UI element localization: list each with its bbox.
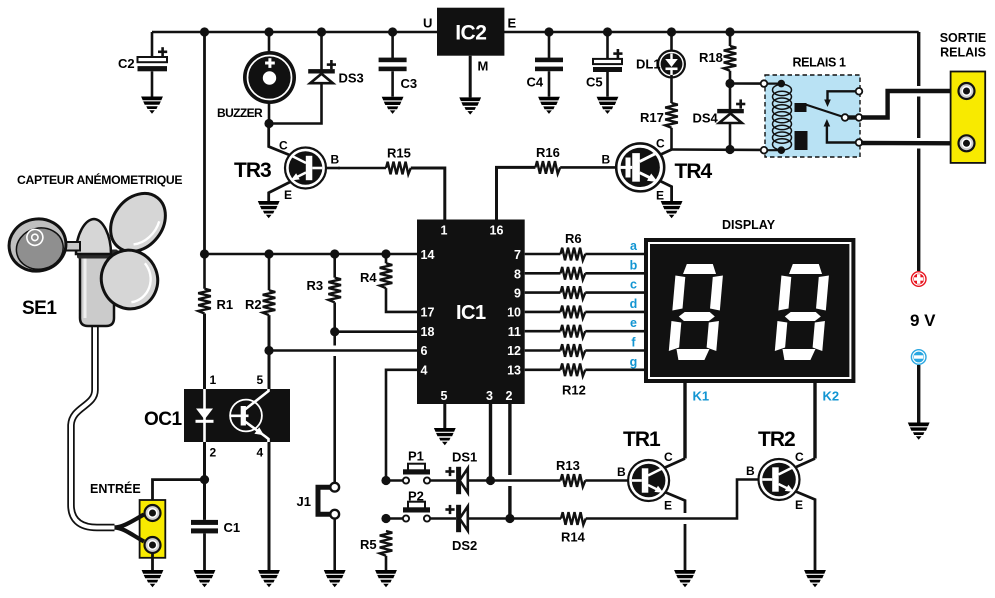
wire J1 vertical with hop <box>333 332 336 346</box>
op-amp microcontroller IC1 <box>417 220 525 405</box>
node P2 junction <box>381 514 390 523</box>
node P1 junction <box>381 476 390 485</box>
svg-text:d: d <box>630 297 638 311</box>
svg-text:E: E <box>508 16 517 31</box>
resistor R6 <box>561 248 586 261</box>
wire R18 junction to relay coil top <box>730 82 764 85</box>
svg-text:9: 9 <box>514 287 521 301</box>
buzzer BZ <box>217 32 296 124</box>
svg-text:C: C <box>795 450 804 464</box>
svg-text:K1: K1 <box>693 389 710 404</box>
relay NO contact <box>827 125 859 143</box>
wire IC1 pin3 down <box>489 404 492 481</box>
battery 9V positive terminal <box>910 271 936 330</box>
wire K2 <box>813 383 816 459</box>
wire OC1 pin4 to ground <box>268 442 271 570</box>
svg-text:E: E <box>795 498 803 512</box>
svg-text:BUZZER: BUZZER <box>217 106 263 120</box>
resistor R8 <box>561 286 586 299</box>
ground below TR4 <box>661 201 683 218</box>
diode DS3 <box>308 32 364 86</box>
svg-text:14: 14 <box>421 248 435 262</box>
relay NC contact <box>828 91 860 101</box>
sensor cable <box>71 324 115 528</box>
node segment letters a-g <box>630 239 638 369</box>
ground below IC1 pin5 <box>434 428 456 445</box>
svg-text:C3: C3 <box>401 76 418 91</box>
wire pin4 stub and vertical <box>386 370 417 481</box>
relay terminals <box>761 80 768 87</box>
capacitor C2 <box>118 32 167 97</box>
ground below IC2 M pin <box>459 97 481 114</box>
sensor cup top-right <box>99 183 176 263</box>
svg-text:a: a <box>630 239 638 253</box>
transistor TR1 <box>617 428 685 570</box>
svg-text:12: 12 <box>507 344 521 358</box>
wire K1 <box>683 383 686 459</box>
wire pin18 row <box>335 330 417 333</box>
ground below C2 <box>141 97 163 114</box>
resistor R16 <box>497 145 618 220</box>
seven-segment digit 1 <box>668 264 724 360</box>
wire 9V feed vertical with hops <box>917 32 920 271</box>
svg-text:TR3: TR3 <box>234 159 271 182</box>
resistor R18 <box>699 32 736 84</box>
button P2 <box>386 489 456 522</box>
svg-text:TR2: TR2 <box>758 428 795 451</box>
svg-text:U: U <box>423 16 432 31</box>
connector block ENTREE <box>90 481 165 558</box>
transistor TR2 <box>746 428 815 570</box>
svg-text:CAPTEUR ANÉMOMETRIQUE: CAPTEUR ANÉMOMETRIQUE <box>17 172 182 187</box>
svg-text:DS1: DS1 <box>452 450 477 465</box>
wire pin14 row <box>205 253 418 256</box>
svg-text:TR1: TR1 <box>623 428 661 451</box>
node buzzer bottom junction <box>264 119 273 128</box>
anemometer sensor SE1 <box>4 172 182 542</box>
svg-text:J1: J1 <box>297 494 311 509</box>
svg-text:K2: K2 <box>823 389 840 404</box>
svg-text:3: 3 <box>486 389 493 403</box>
wire buzzer junction to DS3 <box>269 83 322 123</box>
sensor arm <box>60 242 80 251</box>
svg-text:1: 1 <box>210 373 217 387</box>
sensor body <box>80 252 114 326</box>
svg-text:b: b <box>630 258 638 272</box>
svg-text:DS3: DS3 <box>339 71 364 86</box>
svg-text:4: 4 <box>257 446 264 460</box>
resistor R4 <box>360 254 417 312</box>
diode DS1 <box>445 450 477 495</box>
svg-text:IC2: IC2 <box>455 22 486 45</box>
svg-text:R3: R3 <box>307 278 324 293</box>
svg-text:RELAIS 1: RELAIS 1 <box>793 56 847 70</box>
resistor R10 <box>561 325 586 338</box>
sensor cup bottom-right <box>93 242 166 317</box>
wire DS1 to R13 <box>469 479 561 482</box>
svg-text:C: C <box>664 450 673 464</box>
svg-text:C: C <box>279 139 288 153</box>
node DS1 row pin3 junction <box>486 476 495 485</box>
svg-text:9 V: 9 V <box>910 311 936 330</box>
svg-text:1: 1 <box>441 224 448 238</box>
node OC1 pin2 junction <box>200 475 209 484</box>
svg-text:C2: C2 <box>118 56 135 71</box>
ground below J1 <box>324 570 346 587</box>
display module DISPLAY <box>644 218 855 383</box>
resistor R15 <box>338 146 445 220</box>
svg-text:DS4: DS4 <box>693 111 719 126</box>
svg-text:DISPLAY: DISPLAY <box>722 218 776 232</box>
relay armature <box>804 104 845 118</box>
capacitor C1 <box>191 520 240 570</box>
connector block SORTIE RELAIS <box>940 31 987 163</box>
relay core bars <box>795 103 807 112</box>
ground below C3 <box>382 97 404 114</box>
svg-text:6: 6 <box>421 344 428 358</box>
resistor R1 <box>198 254 233 389</box>
svg-text:8: 8 <box>514 268 521 282</box>
wire junction to ENTREE <box>153 480 205 505</box>
resistor R13 <box>556 458 629 487</box>
svg-text:10: 10 <box>507 306 521 320</box>
svg-text:R12: R12 <box>562 383 586 398</box>
svg-text:g: g <box>630 355 638 369</box>
battery 9V negative terminal <box>911 349 927 423</box>
resistor R3 <box>307 254 342 332</box>
capacitor C3 <box>379 32 418 97</box>
svg-text:2: 2 <box>210 446 217 460</box>
wire OC1 pin2 down <box>203 442 206 520</box>
transistor TR4 <box>602 137 713 203</box>
svg-text:16: 16 <box>490 224 504 238</box>
wire relay NO to SORTIE bottom <box>861 141 958 146</box>
resistor R14 <box>561 480 759 545</box>
wire J1 to ground <box>333 519 336 570</box>
svg-text:5: 5 <box>441 389 448 403</box>
seven-segment digit 2 <box>774 264 830 360</box>
op-amp regulator IC2 <box>423 8 517 98</box>
svg-text:C: C <box>656 137 665 151</box>
capacitor C5 <box>586 32 623 97</box>
svg-text:B: B <box>746 464 755 478</box>
ground below battery <box>908 423 930 440</box>
ground below C1 <box>194 570 216 587</box>
relay RELAIS 1 <box>761 56 863 158</box>
wire TR4 collector row to relay coil <box>672 148 764 151</box>
jumper J1 <box>297 483 340 519</box>
diode DS2 <box>445 505 477 553</box>
ground below C4 <box>538 97 560 114</box>
svg-text:SORTIE: SORTIE <box>940 31 987 45</box>
node DS2 row pin2 junction <box>505 514 514 523</box>
resistor R12 <box>561 364 586 377</box>
svg-text:11: 11 <box>508 325 521 339</box>
node pin6 junction <box>264 346 273 355</box>
svg-text:DL1: DL1 <box>636 57 661 72</box>
svg-text:e: e <box>630 316 637 330</box>
svg-text:C1: C1 <box>224 520 241 535</box>
sensor center cone <box>76 219 111 254</box>
LED DL1 <box>636 32 685 77</box>
sensor split wires <box>115 515 145 528</box>
svg-text:R2: R2 <box>245 297 262 312</box>
svg-text:P2: P2 <box>408 489 424 504</box>
resistor R17 <box>640 75 678 150</box>
optocoupler OC1 <box>144 373 290 460</box>
svg-text:ENTRÉE: ENTRÉE <box>90 481 141 496</box>
sensor collar <box>77 250 118 259</box>
ground below TR3 <box>258 201 280 218</box>
wire ENTREE to ground <box>151 553 154 570</box>
svg-text:B: B <box>617 465 626 479</box>
resistor R7 <box>561 267 586 280</box>
wire DS2 to R14 <box>469 517 561 520</box>
svg-text:DS2: DS2 <box>452 538 477 553</box>
svg-text:P1: P1 <box>408 449 424 464</box>
resistor R9 <box>561 306 586 319</box>
svg-text:IC1: IC1 <box>456 302 486 324</box>
svg-text:E: E <box>664 499 672 513</box>
svg-text:B: B <box>602 153 611 167</box>
svg-text:C4: C4 <box>527 75 544 90</box>
ground below R5 <box>375 570 397 587</box>
resistor R11 <box>561 344 586 357</box>
node R18/DS4/coil junction <box>725 79 734 88</box>
svg-text:R4: R4 <box>360 270 377 285</box>
node junction dots on top rail <box>200 27 735 36</box>
svg-text:R1: R1 <box>217 297 234 312</box>
ground below OC1 pin4 <box>258 570 280 587</box>
capacitor C4 <box>527 32 564 97</box>
wire pin6 row <box>269 349 417 352</box>
svg-text:R5: R5 <box>360 537 377 552</box>
ground below C5 <box>597 97 619 114</box>
svg-text:R18: R18 <box>699 50 723 65</box>
svg-text:E: E <box>284 188 292 202</box>
svg-text:c: c <box>630 278 637 292</box>
diode DS4 <box>693 84 746 150</box>
sensor cup left <box>4 214 71 277</box>
relay coil L <box>765 82 781 84</box>
svg-text:C5: C5 <box>586 75 603 90</box>
svg-text:2: 2 <box>506 389 513 403</box>
wire IC1 pin2 down with hop <box>508 404 511 475</box>
svg-text:4: 4 <box>421 364 428 378</box>
svg-text:TR4: TR4 <box>675 160 713 183</box>
svg-text:5: 5 <box>257 373 264 387</box>
node pin18 junction <box>330 327 339 336</box>
svg-text:7: 7 <box>514 248 521 262</box>
wire IC1 pin5 to ground <box>443 404 446 428</box>
resistor R2 <box>245 254 275 389</box>
svg-text:SE1: SE1 <box>22 298 57 319</box>
node DS4 bottom junction <box>725 145 734 154</box>
svg-text:R13: R13 <box>556 458 580 473</box>
svg-text:E: E <box>656 189 664 203</box>
ground below ENTREE <box>142 570 164 587</box>
svg-text:B: B <box>331 153 340 167</box>
svg-text:M: M <box>478 59 489 74</box>
display segment wire rows a-g <box>525 254 644 370</box>
wire from rail down to pin14 row <box>203 32 206 254</box>
node dots pin14 row <box>200 249 391 258</box>
wire top supply rail <box>152 31 919 34</box>
svg-text:18: 18 <box>421 325 435 339</box>
ground below TR2 <box>804 570 826 587</box>
svg-text:17: 17 <box>421 306 435 320</box>
transistor TR3 <box>234 124 340 203</box>
button P1 <box>386 449 456 484</box>
resistor R5 <box>360 531 392 570</box>
svg-text:OC1: OC1 <box>144 409 183 430</box>
svg-text:13: 13 <box>507 364 521 378</box>
ground below TR1 <box>674 570 696 587</box>
svg-text:R16: R16 <box>536 145 560 160</box>
svg-text:R17: R17 <box>640 110 664 125</box>
svg-text:R6: R6 <box>565 231 582 246</box>
svg-text:RELAIS: RELAIS <box>940 46 986 60</box>
wire relay common to SORTIE top <box>861 91 958 118</box>
svg-text:R15: R15 <box>387 146 411 161</box>
svg-text:R14: R14 <box>561 530 586 545</box>
